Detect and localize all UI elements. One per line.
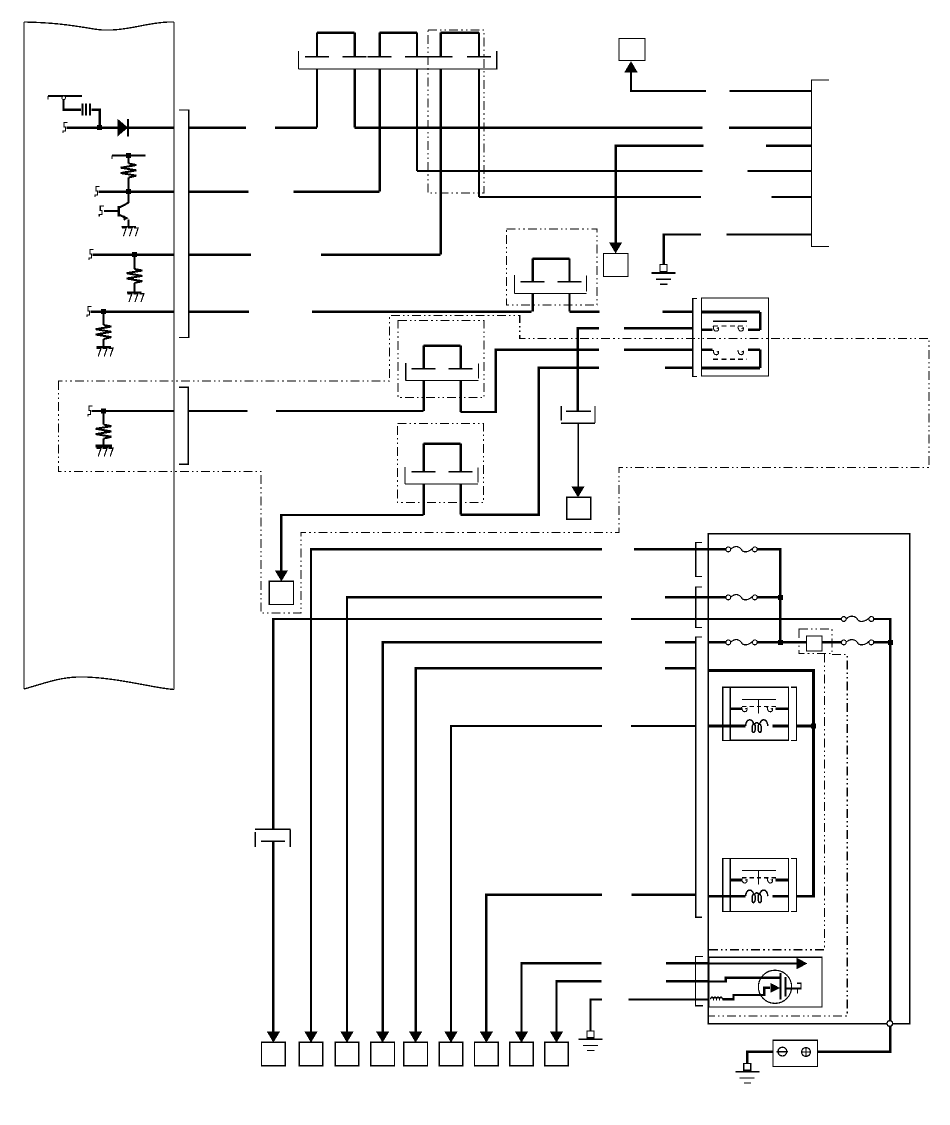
relay K1 bracket left bbox=[723, 687, 730, 740]
phantom harness boundary (dash-dot loop) bbox=[58, 316, 929, 614]
junction node on pull-up rail bbox=[126, 153, 131, 158]
bottom destination box 9 bbox=[545, 1042, 569, 1066]
phantom branch B (relay block right to box bottom) bbox=[708, 655, 847, 1016]
under-hood fuse/relay box bbox=[708, 534, 910, 1024]
fuse-box connector bracket 4 (FET) bbox=[696, 957, 704, 1006]
wire y642 with fuse F10 into relay coil block bbox=[708, 640, 806, 645]
relay K1 contacts bbox=[730, 700, 788, 714]
arrow into bottom box 2 bbox=[305, 1032, 318, 1043]
ground (R3) bbox=[96, 347, 113, 356]
junction dot (780,597) bbox=[778, 595, 783, 600]
relay K2 bracket left bbox=[723, 858, 730, 911]
wire 2 segment (break to fuse 2 left leg) bbox=[294, 190, 380, 192]
bottom destination box 2 bbox=[299, 1042, 323, 1066]
cascade wire 5 horizontal run bbox=[416, 668, 602, 670]
fuse F1 element bbox=[305, 33, 367, 128]
wire from F5 right leg up to switch feed bbox=[461, 350, 600, 412]
fuse bus bar (bank 2) bbox=[515, 275, 587, 294]
wire y234 with ground branch bbox=[664, 234, 701, 264]
relay K1 output wire bbox=[797, 725, 814, 728]
bottom destination box 1 bbox=[262, 1042, 286, 1066]
cascade wire 2 vertical drop bbox=[310, 550, 312, 1033]
relay K2 coil bbox=[730, 890, 788, 903]
switch connector bracket bbox=[693, 298, 698, 376]
cascade wire 8 right segment bbox=[666, 962, 708, 964]
cascade wire 5 vertical drop bbox=[414, 669, 416, 1033]
relay K1 coil bbox=[730, 720, 788, 733]
wire segment (break to switch pin C) bbox=[624, 349, 693, 351]
arrow into box B4 bbox=[275, 571, 288, 582]
ground G3 (battery) bbox=[735, 1063, 759, 1083]
device connector C3 (right) bbox=[812, 80, 829, 247]
cascade wire 3 vertical drop bbox=[346, 598, 348, 1033]
wire from F3 to right connector (y197) bbox=[479, 196, 812, 198]
arrow into bottom box 8 bbox=[515, 1032, 528, 1043]
cascade wire 4 right segment to fuse-box connector bbox=[665, 641, 696, 643]
junction dot (780,642) bbox=[778, 640, 783, 645]
internal supply rail with pickup coil L1 bbox=[48, 96, 100, 128]
wire from F6 right leg up to switch pin D feed bbox=[461, 368, 599, 515]
relay feed bus (thick path) bbox=[708, 671, 813, 897]
wire 3 segment (pin to connector break) bbox=[93, 253, 251, 255]
ECU connector C2 (lower) bbox=[179, 387, 188, 464]
wire segment (break to switch pin A) bbox=[663, 310, 693, 312]
cascade wire 2 right segment to fuse-box connector bbox=[634, 548, 708, 550]
FET gate wire bbox=[709, 978, 780, 982]
cascade wire 1 horizontal run bbox=[273, 619, 602, 621]
ECU pin 5 bbox=[88, 406, 93, 416]
bottom destination box 3 bbox=[335, 1042, 359, 1066]
relay K2 contacts bbox=[730, 871, 788, 885]
junction node on wire 3 bbox=[132, 252, 137, 257]
fuse F6 element bbox=[412, 444, 473, 515]
MOSFET Q2 (in circle) bbox=[758, 970, 801, 1003]
destination box B4 bbox=[269, 581, 293, 604]
fuse F5 element bbox=[412, 346, 473, 412]
FET driver module box bbox=[709, 957, 822, 1007]
arrow into destination box bbox=[625, 62, 706, 91]
control module (ECM/PCM) box with torn wavy edges bbox=[24, 22, 174, 690]
fuse F7 (y549) bbox=[708, 547, 780, 552]
battery feed wire bbox=[818, 1026, 891, 1051]
wire 1 segment (right break to device connector) bbox=[729, 126, 812, 128]
wire 3 segment (break to fuse 3 left leg) bbox=[321, 253, 441, 255]
fuse-box connector bracket 1 bbox=[696, 542, 702, 576]
cascade wire 6 right segment to fuse-box connector bbox=[631, 725, 696, 727]
wire 1 segment (break to fuse 1 leg) bbox=[275, 126, 317, 128]
internal pull-up rail for wire 2 bbox=[112, 156, 146, 159]
transistor Q1 (NPN driver) bbox=[104, 192, 129, 227]
resistor R2 bbox=[127, 255, 143, 293]
junction ring on fuse-box bottom edge bbox=[887, 1021, 893, 1027]
cascade wire 9 right segment bbox=[666, 980, 708, 982]
wire segment (break to switch pin D) bbox=[665, 367, 693, 369]
phantom box around fuse F6 bbox=[398, 424, 484, 503]
wire y145 corner to arrow box B3 bbox=[616, 146, 704, 246]
cascade wire 8 (to FET box) bbox=[522, 963, 602, 1033]
wire 2 segment (pin to connector break) bbox=[99, 190, 249, 192]
arrow into bottom box 1 bbox=[267, 1032, 280, 1043]
cascade wire 7 right segment to fuse-box connector bbox=[632, 894, 696, 896]
bottom destination box 6 bbox=[439, 1042, 463, 1066]
bottom destination box 7 bbox=[475, 1042, 499, 1066]
wire y619 with fuse F9 bbox=[708, 616, 890, 621]
cascade wire 3 right segment to fuse-box connector bbox=[665, 596, 708, 598]
cascade wire 5 right segment to fuse-box connector bbox=[665, 667, 696, 669]
wire segment (break to switch pin B) bbox=[624, 327, 693, 329]
arrow into bottom box 6 bbox=[445, 1032, 458, 1043]
main feed drop x890 bbox=[889, 620, 892, 1021]
ECU pin 1 bbox=[63, 123, 68, 133]
resistor R3 bbox=[96, 312, 112, 347]
ground G2 bbox=[579, 1031, 603, 1051]
relay K1 bracket right bbox=[791, 687, 797, 740]
relay K2 coil input wire bbox=[708, 895, 730, 898]
junction node on wire 4 bbox=[101, 309, 106, 314]
wire 4 segment (break to fuse 4 left leg) bbox=[312, 310, 532, 312]
FET arrow output wire bbox=[709, 958, 807, 969]
wire y91 right segment bbox=[729, 90, 811, 92]
phantom box around fuse F4 bbox=[507, 229, 597, 305]
cascade wire 7 vertical drop bbox=[485, 896, 487, 1033]
wire 4 segment (pin to connector break) bbox=[91, 310, 249, 312]
fuse F2 element bbox=[368, 33, 429, 192]
switch housing box bbox=[702, 298, 769, 376]
wire 5 segment (break to fuse 5 left leg) bbox=[276, 410, 424, 412]
fuse bus bar (top bank) bbox=[298, 51, 497, 69]
FET wire right segment bbox=[628, 998, 708, 1000]
switch contact set 2 (lower) bbox=[702, 350, 761, 368]
phantom branch A (relay block to FET area) bbox=[708, 654, 824, 950]
battery negative wire to ground bbox=[747, 1052, 773, 1064]
relay K1 coil input wire bbox=[708, 725, 730, 728]
cascade wire 4 vertical drop bbox=[381, 643, 383, 1033]
bottom destination box 4 bbox=[371, 1042, 395, 1066]
relay K2 bracket right bbox=[791, 858, 797, 911]
ECU pin 2 bbox=[95, 187, 100, 197]
resistor R1 bbox=[121, 156, 137, 192]
wire chain x578 with inline connector bbox=[561, 327, 595, 488]
arrow into bottom box 7 bbox=[480, 1032, 493, 1043]
arrow into bottom box 9 bbox=[550, 1032, 563, 1043]
bottom destination box 5 bbox=[404, 1042, 428, 1066]
junction node on wire 2 bbox=[126, 189, 131, 194]
wire y234 right segment bbox=[727, 233, 812, 235]
switch contact set 1 (upper) bbox=[702, 312, 761, 331]
ECU connector C1 (upper) bbox=[179, 110, 189, 337]
diode D1 on wire 1 bbox=[118, 119, 129, 137]
arrow into bottom box 4 bbox=[376, 1032, 389, 1043]
cascade wire 7 horizontal run bbox=[486, 895, 602, 897]
cascade wire 6 vertical drop bbox=[450, 727, 452, 1033]
junction dot (890,642) bbox=[888, 640, 893, 645]
arrow into box B2 bbox=[572, 487, 585, 498]
arrow into bottom box 3 bbox=[341, 1032, 354, 1043]
phantom box around fuse F3 bbox=[428, 30, 484, 193]
wire from F4 right leg (to break) bbox=[570, 310, 600, 312]
cascade wire 9 (to FET box) bbox=[557, 981, 602, 1033]
cascade wire 6 horizontal run bbox=[451, 726, 602, 728]
resistor R4 bbox=[96, 411, 112, 446]
relay K2 box bbox=[730, 858, 788, 911]
junction dot (813,726) bbox=[811, 724, 816, 729]
fuse-box connector bracket 2 bbox=[696, 587, 702, 628]
cascade wire 4 horizontal run bbox=[383, 642, 602, 644]
ECU pin 3 bbox=[89, 250, 94, 260]
fuse F4 element bbox=[521, 259, 582, 312]
phantom box around small relay block bbox=[799, 629, 832, 654]
wire 5 segment (pin to connector break) bbox=[92, 410, 248, 412]
fuse bus bar (bank 3) bbox=[406, 363, 479, 381]
junction node on wire 5 bbox=[101, 409, 106, 414]
arrow into bottom box 5 bbox=[409, 1032, 422, 1043]
ECU pin 2b (transistor base) bbox=[99, 206, 104, 216]
fuse F8 (y597) bbox=[708, 595, 780, 600]
fuse bus bar (bank 4) bbox=[405, 467, 478, 484]
relay K1 box bbox=[730, 687, 788, 740]
cascade wire 1 right segment to fuse-box connector bbox=[631, 618, 708, 620]
cascade wire 1 vertical with inline connector bbox=[255, 620, 291, 1033]
cascade wire 2 horizontal run bbox=[311, 549, 602, 551]
wire 1 segment (fuse 1 to right connector break) bbox=[355, 126, 703, 128]
wire y642 to fuse F11 bbox=[822, 640, 890, 645]
ground stub wire (FET source return) bbox=[591, 1000, 603, 1031]
bottom destination box 8 bbox=[510, 1042, 534, 1066]
wire from F2 to right connector (y171) bbox=[417, 170, 812, 172]
destination box B3 bbox=[604, 254, 628, 277]
wire segment (corner wire y328 from junction chain) bbox=[578, 328, 600, 329]
wire y515 to arrow box B4 bbox=[281, 515, 423, 572]
destination box B2 bbox=[567, 497, 591, 519]
junction node on wire 1 bbox=[97, 125, 102, 130]
small relay/diode block bbox=[807, 636, 822, 651]
destination box (arrow up) bbox=[619, 38, 645, 60]
fuse F3 element bbox=[429, 33, 491, 255]
ECU pin 4 bbox=[87, 307, 92, 317]
ground (transistor emitter) bbox=[122, 227, 139, 236]
ground G1 bbox=[652, 265, 676, 285]
bus drop x780 bbox=[779, 549, 782, 642]
cascade wire 3 horizontal run bbox=[347, 597, 602, 599]
ground (R2) bbox=[127, 293, 144, 302]
wire y145 right segment bbox=[766, 144, 812, 146]
ground (R4, heavy bar) bbox=[95, 446, 113, 456]
FET source wire with resistor bbox=[711, 983, 780, 999]
fuse-box connector bracket 3 bbox=[696, 637, 702, 917]
battery bbox=[773, 1040, 818, 1066]
phantom box around fuse F5 bbox=[398, 321, 484, 398]
wire 1 segment (pin to connector break) bbox=[66, 126, 246, 128]
arrow into box B3 bbox=[609, 243, 622, 254]
